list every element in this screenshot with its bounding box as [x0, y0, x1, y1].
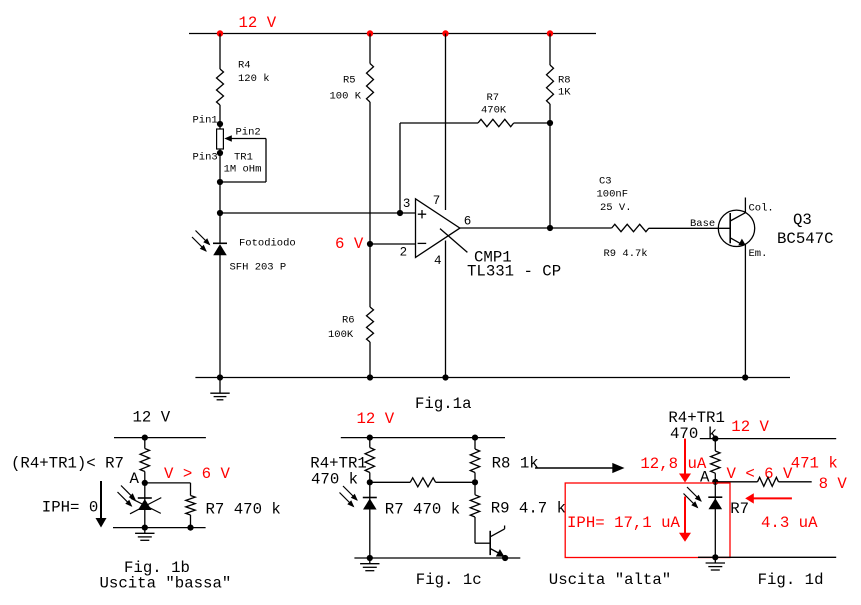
svg-text:12 V: 12 V	[239, 14, 277, 32]
fig1b node supply	[142, 435, 148, 441]
fig1c ground symbol	[369, 558, 371, 564]
node 12V-R4	[217, 30, 223, 36]
svg-text:12,8 uA: 12,8 uA	[640, 455, 706, 473]
wire 12V to R4	[219, 34, 221, 70]
ground symbol	[219, 378, 221, 393]
fig1c wire A to R7	[370, 481, 410, 483]
svg-text:100K: 100K	[328, 329, 354, 341]
svg-text:120 k: 120 k	[238, 73, 270, 85]
svg-text:470 k: 470 k	[311, 471, 358, 489]
svg-text:12 V: 12 V	[357, 410, 395, 428]
svg-text:IPH= 17,1 uA: IPH= 17,1 uA	[567, 514, 681, 532]
svg-text:R7 470 k: R7 470 k	[385, 501, 460, 519]
ground rail	[195, 377, 790, 379]
wire feedback horizontal	[400, 122, 478, 124]
photodiode D1	[213, 242, 227, 244]
node 12V-U1	[442, 30, 448, 36]
svg-text:100nF: 100nF	[597, 189, 629, 201]
fig1d wire A to 471k	[715, 481, 757, 483]
fig1c photodiode	[363, 497, 377, 499]
node feedback tap	[397, 210, 403, 216]
fig1c resistor R8	[470, 449, 479, 473]
fig1b supply rail	[114, 437, 206, 439]
transistor Q3 emitter	[730, 238, 740, 244]
svg-text:A: A	[700, 469, 710, 487]
wire R5 to 6V node	[369, 102, 371, 244]
node TR1 bottom	[217, 179, 223, 185]
fig1c wire R7 to right node	[436, 481, 475, 483]
node R8-output	[547, 225, 553, 231]
wire emitter to ground rail	[744, 245, 746, 378]
fig1c wire R8 node to R9	[474, 482, 476, 495]
svg-text:Em.: Em.	[749, 248, 768, 260]
svg-text:471 k: 471 k	[791, 455, 838, 473]
fig1d node gnd	[712, 554, 718, 560]
fig1b node gnd left	[142, 525, 148, 531]
svg-text:470 k: 470 k	[670, 425, 717, 443]
svg-text:4: 4	[434, 254, 442, 268]
fig1d resistor 471k	[758, 477, 779, 486]
svg-text:R6: R6	[342, 315, 355, 327]
svg-text:R8: R8	[558, 75, 571, 87]
wire R6 to ground rail	[369, 342, 371, 378]
fig1c transistor collector	[490, 529, 504, 537]
resistor R5	[367, 64, 374, 103]
svg-text:R9 4.7k: R9 4.7k	[604, 248, 648, 260]
op-amp supply wire pin7	[445, 34, 447, 211]
fig1d resistor R4+TR1	[711, 451, 720, 473]
fig1c node A	[367, 479, 373, 485]
12V supply rail	[189, 33, 596, 35]
svg-text:1M oHm: 1M oHm	[224, 164, 262, 176]
svg-text:TR1: TR1	[234, 152, 253, 164]
fig1d node supply	[712, 436, 718, 442]
svg-text:Fig. 1c: Fig. 1c	[416, 571, 482, 589]
op-amp minus sign	[418, 242, 427, 244]
wire 12V to R8	[549, 34, 551, 66]
op-amp U1 CMP1 triangle	[416, 199, 460, 258]
TR1 wiper arrow	[224, 135, 232, 142]
fig1b resistor R4+TR1	[140, 449, 149, 472]
fig1d photodiode light arrows	[687, 487, 701, 501]
resistor R9	[612, 224, 649, 231]
fig1b ground rail	[113, 527, 206, 529]
transistor Q3 circle	[718, 210, 754, 246]
wire photodiode to ground rail	[219, 255, 221, 378]
svg-text:BC547C: BC547C	[777, 230, 833, 248]
svg-text:IPH= 0: IPH= 0	[42, 499, 98, 517]
svg-text:Uscita "alta": Uscita "alta"	[549, 571, 671, 589]
node gnd-Q3	[742, 374, 748, 380]
resistor R4	[217, 69, 224, 105]
wire R7 to R8 node	[514, 122, 550, 124]
node Pin3	[217, 150, 223, 156]
svg-text:C3: C3	[599, 176, 612, 188]
svg-text:100 K: 100 K	[330, 91, 362, 103]
wire 6V to pin2	[370, 243, 416, 245]
fig1d wire 471k right	[779, 481, 812, 483]
node R7-R8	[547, 120, 553, 126]
svg-text:Uscita "bassa": Uscita "bassa"	[100, 575, 232, 593]
node 12V-R5	[367, 30, 373, 36]
svg-text:R7: R7	[487, 92, 500, 104]
fig1d wire supply-resistor	[714, 439, 716, 451]
svg-text:Fig. 1d: Fig. 1d	[758, 571, 824, 589]
wire output to R9	[460, 227, 612, 229]
fig1b node A	[142, 480, 148, 486]
fig1c wire supply-resistor left	[369, 438, 371, 448]
fig1d current arrow left	[753, 497, 792, 499]
svg-text:Base: Base	[690, 218, 715, 230]
fig1d wire photodiode to gnd	[714, 482, 716, 558]
fig1c photodiode light arrows	[343, 486, 357, 500]
svg-text:Fotodiodo: Fotodiodo	[239, 238, 296, 250]
resistor R6	[367, 307, 374, 342]
fig1c wire R9 to base	[474, 517, 476, 543]
wire 12V to R5	[369, 34, 371, 64]
TR1 wiper loop wire	[265, 139, 267, 183]
fig1c transistor emitter	[490, 549, 498, 554]
svg-text:R9 4.7 k: R9 4.7 k	[491, 500, 566, 518]
svg-text:6 V: 6 V	[335, 235, 364, 253]
fig1c bottom rail	[354, 557, 520, 559]
svg-text:25 V.: 25 V.	[600, 202, 632, 214]
svg-text:Pin1: Pin1	[193, 115, 218, 127]
fig1d supply rail	[700, 438, 836, 440]
op-amp leader line	[440, 229, 467, 253]
node 12V-R8	[547, 30, 553, 36]
svg-text:Col.: Col.	[749, 202, 774, 214]
svg-text:TL331 - CP: TL331 - CP	[467, 263, 561, 281]
svg-text:R7 470 k: R7 470 k	[206, 501, 281, 519]
svg-text:470K: 470K	[481, 105, 507, 117]
svg-text:1K: 1K	[558, 87, 571, 99]
fig1b photodiode cross	[130, 498, 161, 514]
fig1c node supply left	[367, 435, 373, 441]
fig1d photodiode	[708, 496, 722, 498]
svg-text:Q3: Q3	[793, 211, 812, 229]
potentiometer TR1 body	[217, 129, 224, 149]
fig1b photodiode light arrows	[121, 486, 135, 500]
fig1c transistor base bar	[489, 531, 491, 555]
fig1c node R8-R9	[472, 479, 478, 485]
transistor Q3 base bar	[729, 213, 731, 243]
node gnd-D1	[217, 374, 223, 380]
svg-text:2: 2	[400, 246, 408, 260]
node Pin1	[217, 121, 223, 127]
svg-text:8 V: 8 V	[819, 475, 848, 493]
fig1c supply rail	[341, 437, 505, 439]
fig1c arrow to fig1d	[535, 467, 613, 469]
svg-text:R8 1k: R8 1k	[492, 455, 539, 473]
fig1b resistor R7	[186, 496, 195, 516]
fig1b ground symbol	[144, 528, 146, 534]
resistor R8	[547, 65, 554, 104]
svg-text:Pin2: Pin2	[236, 127, 261, 139]
svg-text:(R4+TR1)< R7: (R4+TR1)< R7	[11, 455, 124, 473]
node 6V	[367, 241, 373, 247]
wire R9 to base	[649, 227, 730, 229]
svg-text:R4: R4	[238, 60, 251, 72]
svg-text:6: 6	[464, 215, 472, 229]
fig1c resistor R4+TR1	[365, 448, 374, 473]
op-amp supply wire pin4	[445, 241, 447, 378]
wire R4 to TR1	[219, 105, 221, 129]
svg-text:3: 3	[403, 197, 411, 211]
fig1b current arrow	[100, 481, 102, 519]
node gnd-R6	[367, 374, 373, 380]
fig1d current arrow bottom	[684, 497, 686, 534]
wire R8 to output node	[549, 104, 551, 228]
photodiode light arrows	[196, 231, 210, 245]
svg-text:V < 6 V: V < 6 V	[727, 465, 793, 483]
svg-text:SFH 203 P: SFH 203 P	[230, 262, 287, 274]
fig1c wire supply to R8	[474, 438, 476, 449]
op-amp plus sign	[418, 213, 426, 215]
svg-text:12 V: 12 V	[731, 418, 769, 436]
fig1c node emitter-gnd	[502, 555, 508, 561]
fig1d current arrow top	[684, 439, 686, 474]
fig1b wire R7 to ground rail	[190, 515, 192, 528]
svg-text:Pin3: Pin3	[193, 152, 218, 164]
transistor Q3 collector	[730, 213, 745, 221]
fig1b wire photodiode to ground	[144, 483, 146, 528]
wire 6V to R6	[369, 244, 371, 307]
fig1c wire photodiode to gnd	[369, 482, 371, 558]
svg-text:R7: R7	[730, 500, 749, 518]
fig1c resistor R9	[470, 495, 479, 517]
fig1d node A	[712, 479, 718, 485]
fig1d ground symbol	[714, 557, 716, 563]
fig1b wire resistor to A	[144, 472, 146, 483]
fig1d red box	[565, 483, 730, 558]
svg-text:R5: R5	[343, 75, 356, 87]
fig1c resistor R7	[410, 478, 435, 487]
node gnd-U1	[442, 374, 448, 380]
svg-text:4.3 uA: 4.3 uA	[761, 514, 818, 532]
fig1b wire supply to resistor	[144, 438, 146, 449]
fig1c node supply right	[472, 435, 478, 441]
resistor R7	[478, 119, 514, 126]
svg-text:V > 6 V: V > 6 V	[164, 465, 230, 483]
svg-text:Fig.1a: Fig.1a	[415, 395, 471, 413]
svg-text:12 V: 12 V	[133, 409, 171, 427]
node divider junction	[217, 210, 223, 216]
wire TR1 to node	[219, 149, 221, 244]
fig1b node gnd right	[187, 525, 193, 531]
svg-text:A: A	[130, 470, 140, 488]
fig1c node gnd	[367, 555, 373, 561]
fig1d bottom rail	[698, 556, 836, 558]
svg-text:7: 7	[433, 194, 441, 208]
fig1b photodiode	[138, 497, 152, 499]
fig1b wire A to R7	[145, 482, 191, 484]
wire feedback vertical	[399, 123, 401, 213]
wire divider to pin3	[220, 212, 416, 214]
